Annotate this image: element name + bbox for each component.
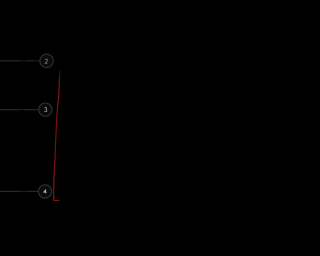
leader line 3 dim notch	[20, 109, 24, 111]
leader line 4 dim notch	[22, 190, 27, 192]
leader line to node 2	[0, 60, 40, 62]
node 2 circle	[40, 54, 53, 67]
node 2 label "2"	[45, 59, 48, 63]
node 3 label "3"	[44, 108, 47, 112]
red contour line	[54, 71, 60, 200]
red contour bottom hook	[54, 197, 59, 200]
leader line to node 4	[0, 190, 39, 192]
leader line 2 fade near circle	[34, 60, 39, 62]
node 3 circle	[39, 103, 52, 116]
leader line 2 dim notch	[19, 60, 26, 62]
node 4 label "4"	[43, 189, 46, 192]
node 4 circle	[38, 185, 51, 198]
leader line to node 3	[0, 109, 39, 111]
